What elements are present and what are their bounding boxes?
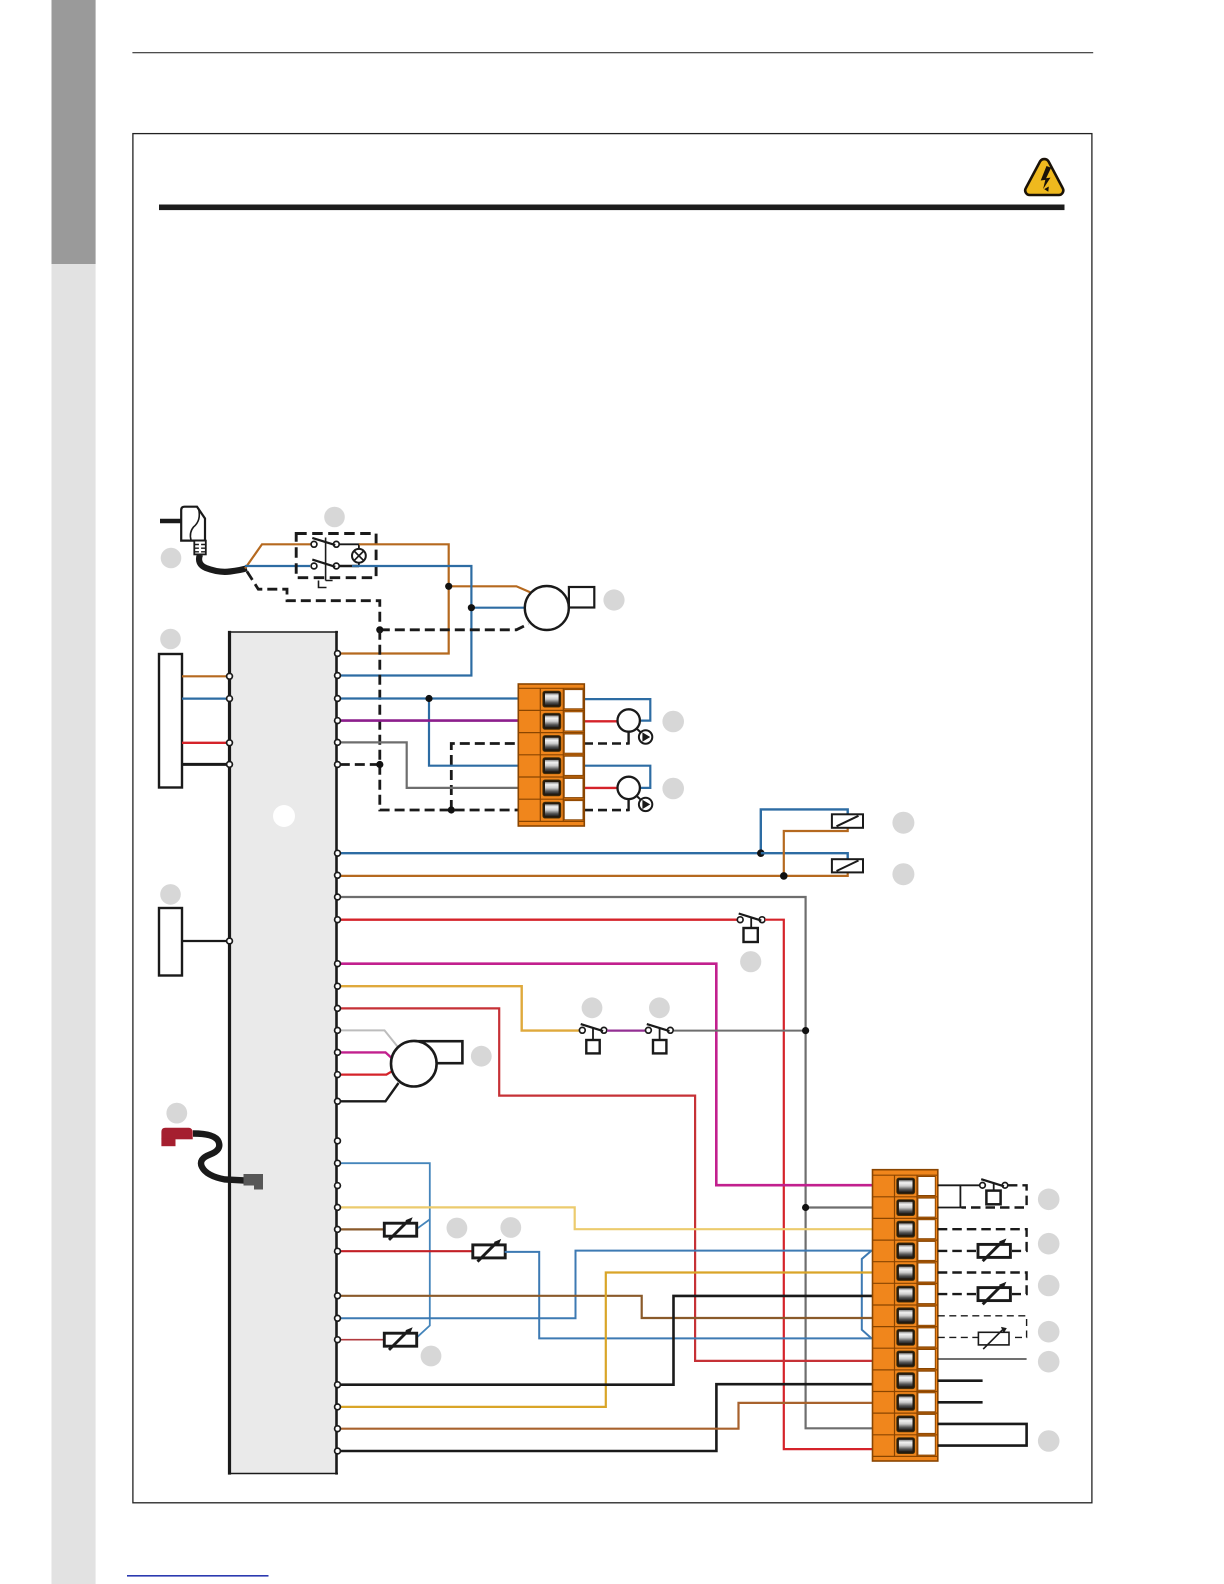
callout 9 connector X4 bbox=[160, 884, 181, 905]
wire blue branch to sensor1 bbox=[416, 1219, 430, 1229]
service cable plug bbox=[244, 1174, 264, 1190]
connector X4 bbox=[159, 908, 182, 976]
callout 22 row9 bbox=[1038, 1351, 1060, 1373]
callout 8 relay K2 bbox=[892, 863, 914, 885]
wire red pin to sensor2 bbox=[340, 1250, 474, 1252]
callout 14 service connector bbox=[166, 1103, 187, 1124]
pump P2 bbox=[618, 709, 653, 743]
wire PE dashed down to pin and terminal bbox=[380, 630, 518, 810]
red service connector bbox=[161, 1128, 192, 1146]
callout 16 sensor NTC2 bbox=[500, 1217, 521, 1238]
callout 19 NTC4 bbox=[1038, 1233, 1060, 1255]
wire red pin to motor bbox=[340, 1071, 392, 1074]
wire red X2 row5 to pump2 bbox=[584, 787, 618, 789]
sensor NTC2 bbox=[473, 1239, 505, 1262]
wire purple pin4 to X2 row2 bbox=[340, 719, 518, 722]
callout 21 NTC6 bbox=[1038, 1321, 1060, 1343]
heading bar bbox=[159, 205, 1065, 211]
callout 17 sensor NTC3 bbox=[421, 1346, 442, 1367]
sidebar light bbox=[52, 264, 96, 1584]
wire link X3 rows 12-13 bbox=[938, 1424, 1027, 1446]
wire X1 brown bbox=[182, 675, 227, 677]
junction dot gray bus bbox=[802, 1027, 809, 1034]
wire brown pin to X3 row11 bbox=[340, 1403, 873, 1429]
terminal block X3 bbox=[873, 1170, 938, 1461]
wire magenta pin to X3 row1 bbox=[340, 964, 873, 1185]
motor M2 bbox=[391, 1041, 462, 1087]
callout 15 sensor NTC1 bbox=[447, 1218, 468, 1239]
relay K1 bbox=[832, 814, 863, 828]
callout 3 fan bbox=[603, 589, 624, 610]
wire brown pin to X3 row7 bbox=[340, 1296, 873, 1318]
diagram frame bbox=[133, 134, 1092, 1503]
junction dot PE low bbox=[448, 806, 455, 813]
wire N blue junction to fan bbox=[471, 607, 525, 609]
callout 20 NTC5 bbox=[1038, 1275, 1060, 1297]
outside sensor NTC4 on X3 rows 3-4 bbox=[938, 1229, 1027, 1261]
top rule bbox=[132, 52, 1093, 53]
wire blue sensor bus bbox=[340, 1163, 430, 1338]
junction dot brown bbox=[445, 583, 452, 590]
main switch S1 dashed box bbox=[296, 534, 376, 578]
sensor NTC6 on X3 rows 7-8 bbox=[938, 1316, 1027, 1349]
callout 6 pump P3 bbox=[662, 778, 684, 800]
wire light gray pin to motor bbox=[340, 1030, 399, 1047]
wire thin X3 row9 stub bbox=[938, 1358, 1027, 1360]
sensor NTC5 on X3 rows 5-6 bbox=[938, 1273, 1027, 1305]
callout 11 switch S2 bbox=[582, 997, 603, 1018]
junction dot blue relays bbox=[757, 849, 765, 857]
switch S3 bbox=[646, 1024, 674, 1053]
wire X1 red bbox=[182, 742, 227, 744]
wire gray switch S3 to gray bus bbox=[674, 1030, 806, 1032]
sensor NTC3 bbox=[384, 1327, 416, 1350]
callout 7 relay K1 bbox=[892, 812, 914, 834]
pins left edge bbox=[227, 673, 233, 944]
wire violet between switches bbox=[607, 1029, 645, 1031]
switch S1 pole N bbox=[311, 560, 339, 569]
wire brown pin to sensor1 bbox=[340, 1228, 385, 1230]
service cable bbox=[193, 1134, 245, 1181]
wire PE dashed junction to fan bbox=[380, 624, 529, 630]
wire magenta pin to motor bbox=[340, 1052, 392, 1058]
wire X4 black bbox=[182, 940, 227, 942]
junction dot blue X2 bbox=[425, 695, 432, 702]
pump P3 bbox=[618, 777, 653, 811]
wire PE dashed stub to pcb pin bbox=[339, 763, 380, 766]
wire PE dashed from plug bbox=[247, 572, 380, 630]
wire yellow pin to switch S2 bbox=[340, 986, 579, 1030]
switch S2 bbox=[579, 1024, 606, 1053]
wire thin red pin to sensor3 bbox=[340, 1339, 385, 1341]
wire black pin to X3 row10 bbox=[340, 1384, 873, 1451]
callout 13 motor M2 bbox=[471, 1046, 492, 1067]
wire black pin to motor bbox=[340, 1083, 399, 1101]
sidebar dark bbox=[52, 0, 96, 264]
wire blue sensor2 to X3 row8 bbox=[505, 1252, 873, 1339]
wire L brown junction to fan bbox=[449, 586, 531, 592]
wire N blue plug to switch bbox=[245, 565, 310, 567]
callout 12 switch S3 bbox=[649, 997, 670, 1018]
wire dashed X2 row3 to pump1 bbox=[584, 742, 629, 745]
junction dot PE mid bbox=[376, 761, 383, 768]
wire blue pin to relays bbox=[340, 809, 848, 853]
callout 10 room stat T1 bbox=[740, 951, 761, 972]
relay K2 bbox=[832, 859, 863, 872]
room thermostat T1 bbox=[737, 914, 765, 943]
junction dot blue bbox=[468, 604, 475, 611]
wire N blue switch to junction to fan and pin bbox=[339, 566, 471, 676]
wire brown pin to relays bbox=[340, 828, 848, 876]
wire pale yellow pin to X3 row3 bbox=[340, 1207, 873, 1229]
wire L brown plug to switch bbox=[245, 544, 311, 568]
wire blue to relay2 bbox=[761, 853, 848, 859]
wire red X2 row2 to pump1 bbox=[584, 720, 618, 722]
wire dashed X2 row6 to pump2 bbox=[584, 809, 629, 812]
wire black pin to X3 row6 bbox=[340, 1296, 873, 1385]
footer link rule bbox=[127, 1575, 269, 1577]
control unit A1 bbox=[230, 632, 337, 1474]
callout 23 rows 12-13 bbox=[1038, 1430, 1060, 1452]
pins right edge bbox=[335, 651, 341, 1454]
callout 1 plug bbox=[161, 548, 182, 569]
switch mechanical link bbox=[319, 538, 333, 588]
sensor NTC1 bbox=[384, 1217, 416, 1240]
switch S1 pole L bbox=[311, 538, 339, 547]
wire red pin to X3 row9 bbox=[340, 1008, 873, 1361]
wire golden pin to X3 row5 bbox=[340, 1273, 873, 1407]
junction dot gray bbox=[802, 1204, 809, 1211]
connector X1 bbox=[159, 654, 182, 788]
wire PE dashed branch to terminal row3 bbox=[451, 744, 518, 811]
junction dot PE top bbox=[376, 626, 383, 633]
wire link X3 rows 4-8 bracket bbox=[862, 1251, 872, 1339]
wire red pin to room stat bbox=[340, 919, 738, 921]
junction dot brown relays bbox=[780, 872, 788, 880]
wire black X3 row10 stub bbox=[938, 1379, 983, 1382]
warning triangle icon bbox=[1025, 159, 1063, 195]
fan M1 bbox=[525, 586, 595, 630]
marker circle on A1 bbox=[273, 805, 295, 827]
callout 5 pump P2 bbox=[662, 711, 684, 733]
wire L brown switch to junction to fan and pin bbox=[339, 544, 449, 653]
wire gray pin to X3 rows 2 and 12 bbox=[340, 897, 937, 1208]
callout 18 room stat T2 bbox=[1038, 1189, 1060, 1211]
room stat T2 on X3 rows 1-2 bbox=[938, 1179, 1027, 1207]
wire blue pin3 to X2 rows 1 and 4 bbox=[340, 697, 584, 699]
wire blue pin to X3 row4 bbox=[340, 1251, 873, 1319]
wire red room stat to X3 row13 bbox=[765, 920, 873, 1449]
terminal block X2 bbox=[518, 684, 584, 826]
wire X1 black bbox=[182, 763, 227, 766]
wire black X3 row11 stub bbox=[938, 1401, 983, 1404]
mains plug X0 bbox=[160, 507, 247, 572]
wire X1 blue bbox=[182, 697, 227, 699]
indicator lamp H1 bbox=[339, 544, 366, 566]
callout 2 switch bbox=[324, 507, 345, 528]
wire gray pin5 to X2 row5 bbox=[340, 742, 584, 788]
callout 4 connector X1 bbox=[160, 629, 181, 650]
